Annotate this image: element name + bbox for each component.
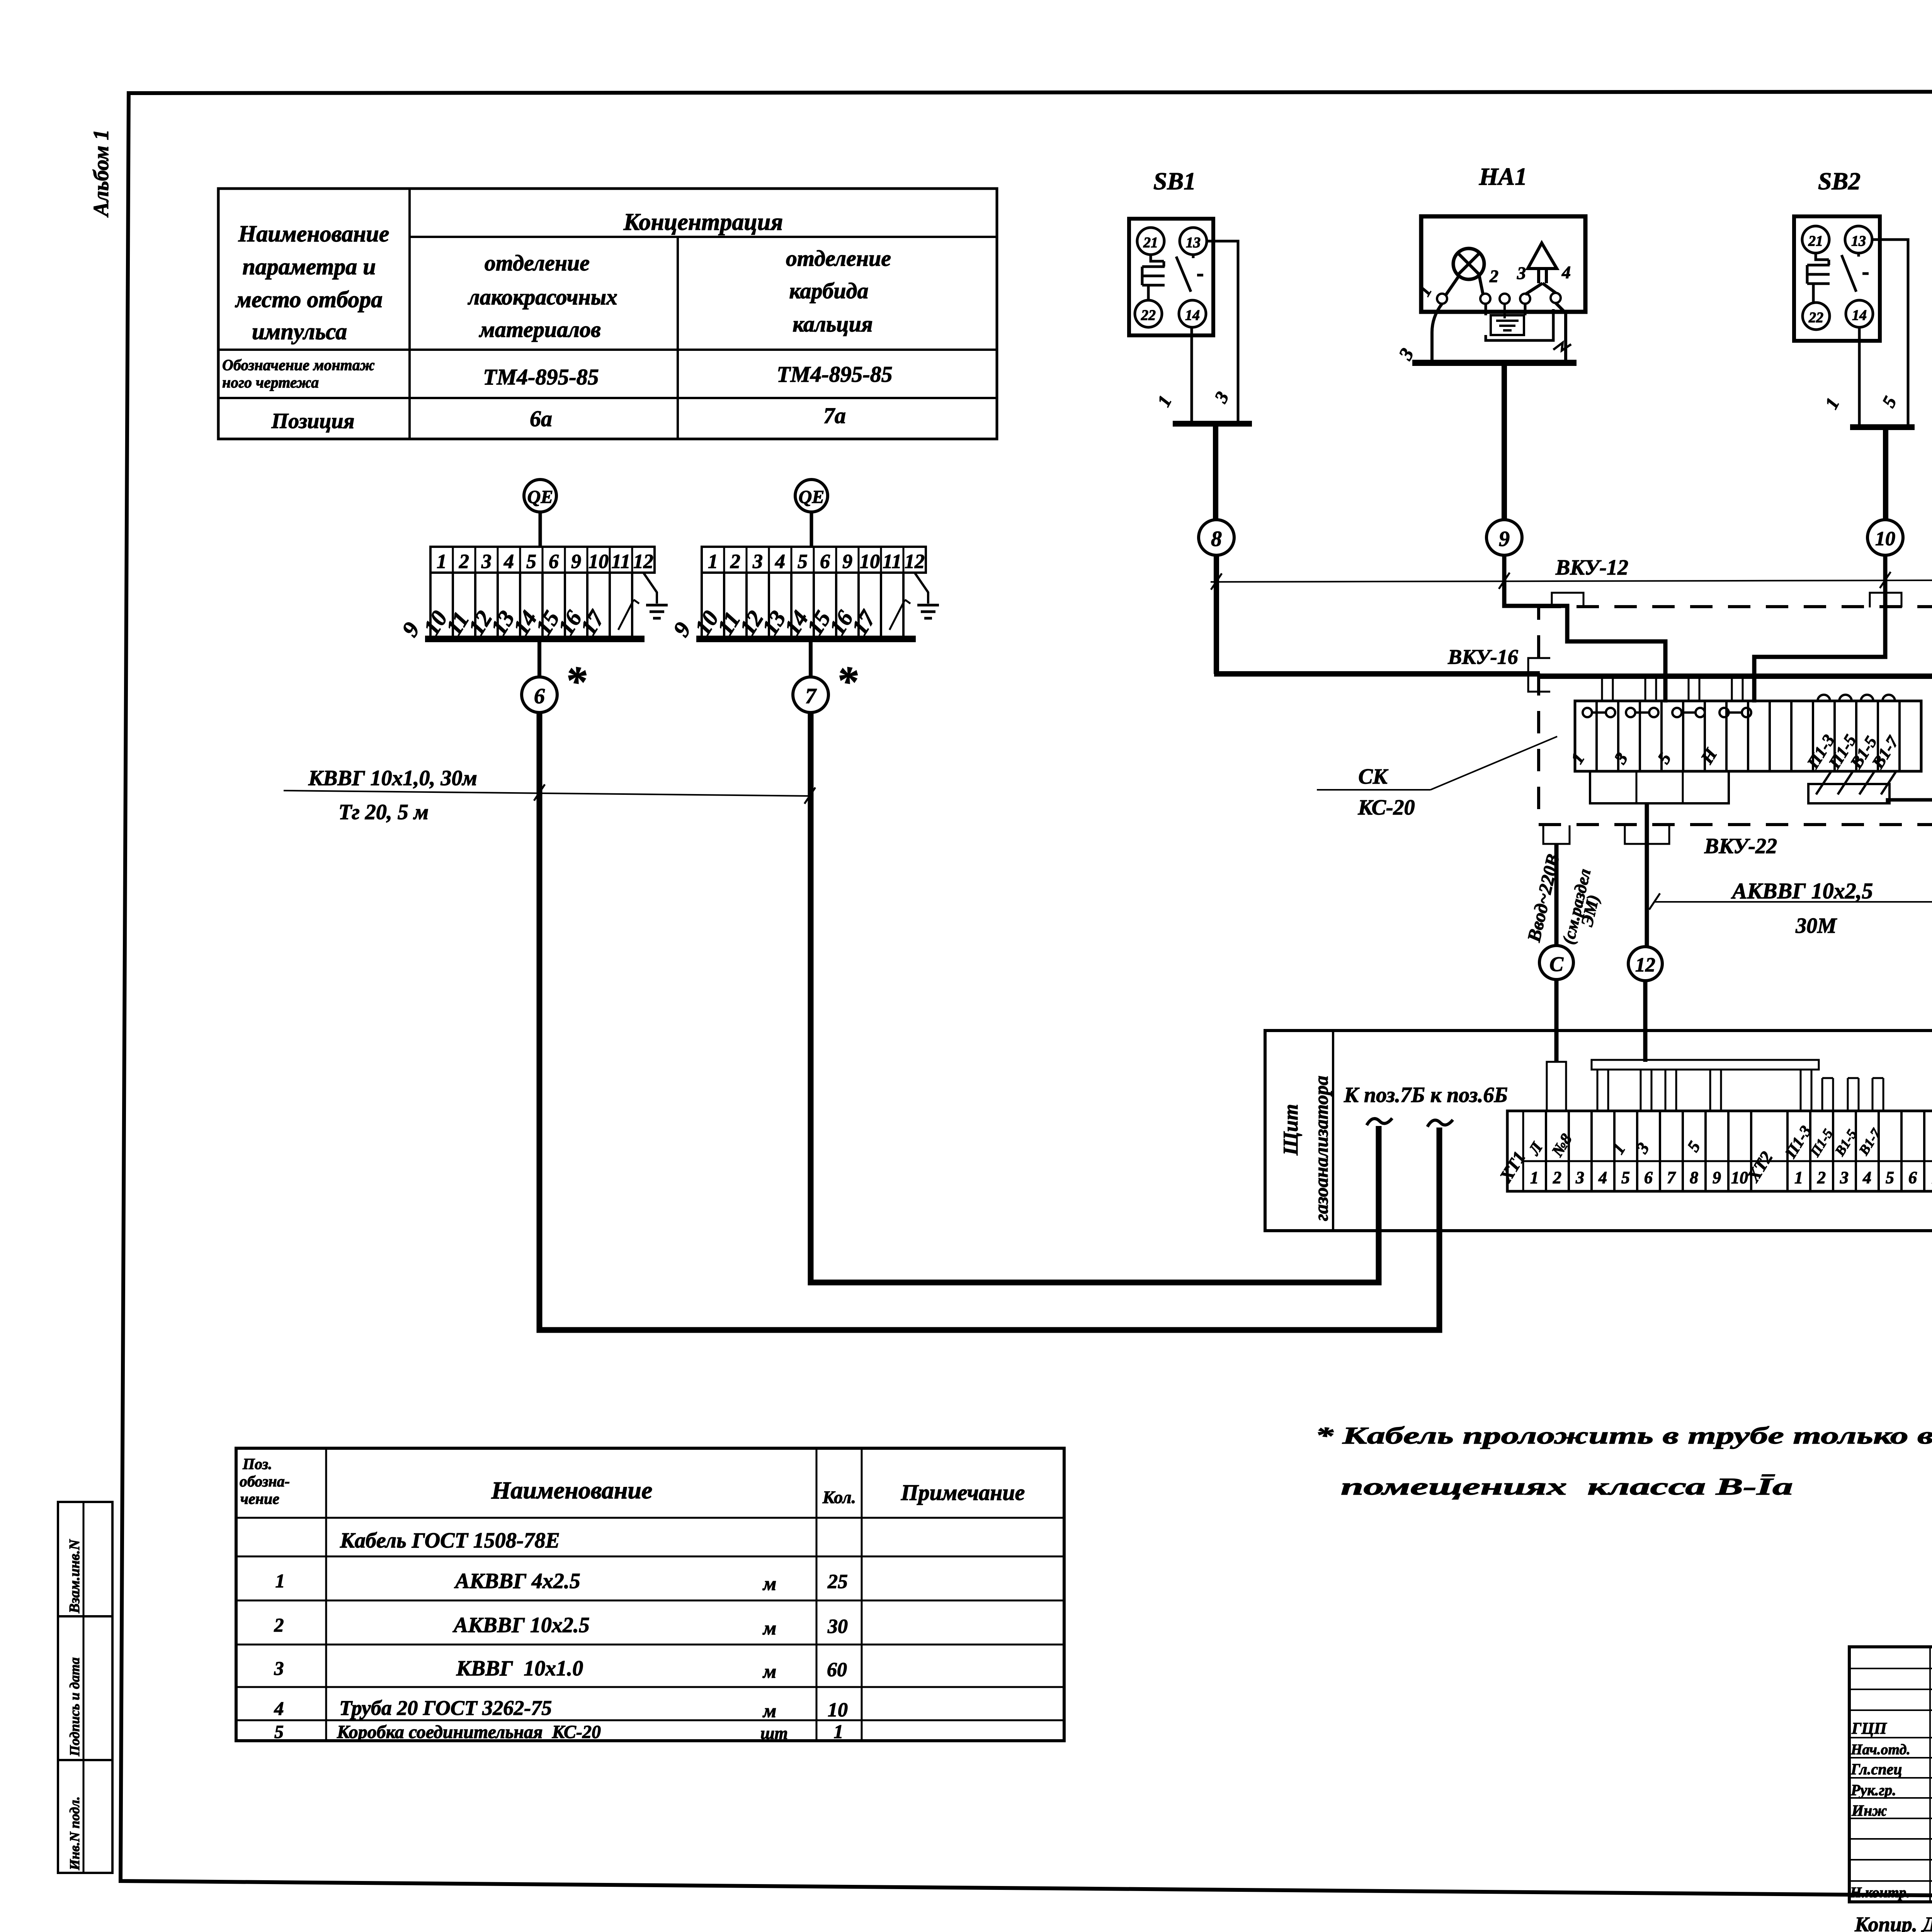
wire bar to node 7: [809, 642, 813, 677]
wire СК to node 12: [1645, 803, 1649, 946]
wire bar to node 8: [1213, 427, 1218, 520]
svg-text:К поз.7Б к поз.6Б: К поз.7Б к поз.6Б: [1344, 1083, 1508, 1107]
svg-text:кальция: кальция: [793, 311, 873, 337]
svg-text:1: 1: [708, 551, 718, 573]
svg-text:12: 12: [1635, 954, 1655, 976]
svg-text:Гл.спец: Гл.спец: [1850, 1760, 1902, 1778]
svg-text:Обозначение монтаж: Обозначение монтаж: [222, 356, 375, 374]
wire from node 6 to gas panel (КВВГ cable): [539, 713, 1439, 1330]
cable label АКВВГ 10х2,5 30М: [1649, 878, 1932, 938]
svg-text:9: 9: [1713, 1168, 1721, 1187]
svg-text:С: С: [1549, 952, 1564, 976]
svg-text:21: 21: [1808, 233, 1823, 249]
svg-text:место отбора: место отбора: [235, 287, 383, 312]
svg-text:Инж: Инж: [1851, 1802, 1887, 1819]
svg-text:м: м: [762, 1617, 776, 1639]
wire SB2.13 down: [1872, 240, 1908, 424]
wire SB2.14 down: [1858, 327, 1861, 424]
svg-text:1: 1: [437, 551, 447, 573]
hook arrow at К поз.7Б: [1367, 1118, 1392, 1125]
node 7: [793, 658, 858, 713]
svg-text:чение: чение: [240, 1490, 279, 1507]
svg-text:2: 2: [1489, 266, 1498, 286]
svg-text:13: 13: [1186, 235, 1201, 251]
wire bar to node 9: [1502, 366, 1507, 520]
gas analyzer panel Щит газоанализатора: [1265, 1031, 1932, 1231]
svg-text:6: 6: [1908, 1168, 1917, 1187]
svg-text:6: 6: [1644, 1168, 1653, 1187]
svg-text:помещениях класса В-Īа: помещениях класса В-Īа: [1341, 1474, 1793, 1500]
svg-text:2: 2: [459, 551, 469, 573]
svg-text:4: 4: [1561, 262, 1571, 282]
svg-text:4: 4: [775, 551, 785, 573]
wire node 10 into junction box: [1754, 556, 1885, 702]
cable gland top left: [1552, 593, 1583, 607]
pushbutton SB2: [1794, 167, 1880, 341]
svg-text:10: 10: [1875, 528, 1895, 550]
svg-text:14: 14: [1852, 307, 1867, 323]
wire QE1 to terminal block: [539, 512, 542, 547]
wire bus through junction box: [1539, 673, 1932, 679]
svg-text:9: 9: [571, 551, 581, 573]
svg-text:Поз.: Поз.: [242, 1455, 272, 1473]
svg-text:7: 7: [805, 684, 817, 708]
svg-text:Концентрация: Концентрация: [623, 209, 783, 235]
svg-text:м: м: [762, 1660, 776, 1682]
svg-text:Кол.: Кол.: [822, 1487, 856, 1507]
note text: [1315, 1423, 1932, 1500]
wire node 8 to junction box ВКУ-16: [1214, 556, 1540, 674]
gas sensor QE1: [524, 480, 556, 512]
risers above strip: [1602, 677, 1743, 701]
wire squiggle N: [1553, 343, 1571, 350]
svg-text:8: 8: [1211, 527, 1222, 551]
wire node 12 into gas panel: [1643, 981, 1648, 1062]
concentration table: [218, 189, 997, 439]
pushbutton SB1: [1129, 167, 1213, 335]
wire node 9 into junction box: [1504, 556, 1665, 702]
wire SB1.13 down: [1207, 241, 1238, 421]
svg-text:* Кабель проложить в трубе тол: * Кабель проложить в трубе только в: [1315, 1423, 1932, 1449]
svg-text:4: 4: [503, 551, 514, 573]
svg-text:9: 9: [1499, 527, 1510, 551]
svg-text:SB2: SB2: [1818, 167, 1861, 195]
svg-text:11: 11: [883, 551, 901, 573]
svg-text:ГЦП: ГЦП: [1851, 1720, 1887, 1738]
svg-text:обозна-: обозна-: [240, 1473, 290, 1490]
lower connector row of СК strip: [1590, 771, 1729, 803]
svg-text:SB1: SB1: [1153, 167, 1196, 195]
svg-text:Коробка соединительная КС-20: Коробка соединительная КС-20: [337, 1722, 601, 1742]
svg-text:4: 4: [274, 1697, 284, 1719]
svg-text:6: 6: [820, 551, 830, 573]
svg-text:Рук.гр.: Рук.гр.: [1850, 1781, 1896, 1799]
svg-text:КС-20: КС-20: [1357, 796, 1415, 820]
hatch wires П/В to bus: [1808, 772, 1932, 803]
svg-text:3: 3: [752, 551, 763, 573]
hook arrow at к поз.6Б: [1427, 1120, 1453, 1127]
ground of QE1 block: [643, 573, 668, 618]
cable gland ВКУ-22 bottom С: [1543, 825, 1570, 844]
terminal block XT of QE2: [668, 547, 926, 642]
svg-text:КВВГ 10х1,0, 30м: КВВГ 10х1,0, 30м: [308, 766, 477, 790]
svg-text:HA1: HA1: [1479, 163, 1527, 190]
svg-text:21: 21: [1143, 235, 1158, 251]
svg-text:Н.контр.: Н.контр.: [1850, 1884, 1910, 1901]
wire bar to node 10: [1883, 430, 1888, 520]
svg-text:Примечание: Примечание: [901, 1480, 1025, 1505]
svg-text:4: 4: [1598, 1168, 1607, 1187]
svg-text:7а: 7а: [823, 403, 846, 428]
svg-text:ного чертежа: ного чертежа: [222, 374, 319, 391]
svg-text:Наименование: Наименование: [491, 1476, 653, 1504]
svg-text:5: 5: [1886, 1168, 1894, 1187]
svg-text:*: *: [836, 658, 858, 705]
album label: [89, 129, 113, 218]
svg-text:5: 5: [1621, 1168, 1630, 1187]
horn annunciator HA1: [1414, 163, 1585, 312]
svg-text:АКВВГ 10х2,5: АКВВГ 10х2,5: [1731, 878, 1873, 903]
svg-text:22: 22: [1141, 307, 1156, 323]
svg-text:2: 2: [730, 551, 740, 573]
svg-text:25: 25: [827, 1571, 848, 1593]
svg-text:шт: шт: [760, 1724, 788, 1743]
svg-text:10: 10: [588, 551, 609, 573]
svg-text:Наименование: Наименование: [238, 221, 389, 247]
riser node С to strip: [1547, 1062, 1566, 1111]
wire SB1.14 down: [1190, 327, 1193, 421]
svg-text:10: 10: [860, 551, 880, 573]
svg-text:Инв.N подл.: Инв.N подл.: [67, 1796, 82, 1871]
svg-text:АКВВГ 4х2.5: АКВВГ 4х2.5: [454, 1569, 580, 1593]
junction bar under SB1: [1173, 421, 1252, 427]
svg-text:ВКУ-12: ВКУ-12: [1555, 556, 1628, 580]
svg-text:отделение: отделение: [786, 246, 891, 271]
svg-text:QE: QE: [527, 487, 553, 507]
svg-text:10: 10: [828, 1699, 848, 1721]
node 10: [1867, 520, 1903, 555]
svg-text:3: 3: [1517, 263, 1526, 283]
svg-text:ТМ4-895-85: ТМ4-895-85: [483, 364, 599, 389]
svg-text:ВКУ-22: ВКУ-22: [1704, 834, 1777, 858]
junction bar under SB2: [1850, 424, 1915, 430]
svg-text:*: *: [565, 658, 587, 705]
node С: [1539, 946, 1573, 980]
svg-text:параметра и: параметра и: [242, 254, 376, 279]
wire Ввод 220В to node С: [1554, 844, 1559, 945]
svg-text:5: 5: [798, 551, 808, 573]
svg-text:ВКУ-16: ВКУ-16: [1447, 645, 1518, 668]
svg-text:1: 1: [834, 1721, 844, 1742]
svg-text:Нач.отд.: Нач.отд.: [1850, 1742, 1910, 1758]
label СК КС-20: [1317, 736, 1557, 820]
cable gland top right: [1870, 593, 1901, 607]
svg-text:12: 12: [905, 551, 925, 573]
svg-text:7: 7: [1667, 1168, 1676, 1187]
svg-text:Подпись и дата: Подпись и дата: [67, 1657, 82, 1757]
wire from node 7 to gas panel (КВВГ cable): [811, 713, 1379, 1282]
terminal strip inside СК: [1567, 695, 1921, 772]
svg-text:карбида: карбида: [789, 278, 869, 303]
svg-text:6а: 6а: [530, 406, 552, 431]
svg-text:60: 60: [827, 1659, 847, 1681]
svg-text:14: 14: [1185, 307, 1200, 323]
node 6: [522, 658, 587, 713]
svg-text:2: 2: [274, 1614, 284, 1636]
wire HA1.1 (3) down: [1432, 304, 1442, 360]
svg-text:КВВГ 10х1.0: КВВГ 10х1.0: [456, 1656, 583, 1680]
svg-text:30М: 30М: [1795, 914, 1837, 938]
bus bar inside panel: [1592, 1060, 1819, 1111]
wire QE2 to terminal block: [810, 512, 813, 547]
svg-text:Альбом 1: Альбом 1: [89, 129, 113, 218]
svg-text:лакокрасочных: лакокрасочных: [468, 284, 617, 310]
gas sensor QE2: [795, 480, 828, 512]
svg-text:Позиция: Позиция: [271, 409, 355, 433]
title block: [1849, 1647, 1932, 1902]
svg-text:газоанализатора: газоанализатора: [1310, 1076, 1332, 1221]
svg-text:3: 3: [274, 1657, 284, 1679]
wire bar to node 6: [537, 642, 541, 677]
wire node С into gas panel: [1554, 980, 1559, 1062]
svg-text:Копир. Дёмкина: Копир. Дёмкина: [1854, 1913, 1932, 1932]
thin cable run ВКУ-12: [1211, 553, 1932, 615]
svg-text:2: 2: [1553, 1168, 1561, 1187]
svg-text:22: 22: [1808, 310, 1823, 326]
svg-text:1: 1: [1530, 1168, 1539, 1187]
junction bar under HA1: [1412, 360, 1577, 366]
svg-text:м: м: [762, 1700, 776, 1721]
node 9: [1486, 520, 1522, 555]
cable label КВВГ 10х1,0 30м: [284, 766, 815, 824]
svg-text:Щит: Щит: [1279, 1104, 1302, 1156]
svg-text:импульса: импульса: [252, 319, 347, 344]
svg-text:QE: QE: [799, 487, 825, 507]
svg-text:30: 30: [827, 1616, 848, 1638]
left margin stamp: [58, 1502, 112, 1873]
svg-text:Тг 20, 5 м: Тг 20, 5 м: [338, 800, 429, 824]
junction box СК КС-20 dashed outline: [1539, 607, 1932, 825]
svg-text:СК: СК: [1358, 765, 1388, 789]
ground of QE2 block: [915, 573, 939, 618]
svg-text:3: 3: [1840, 1168, 1849, 1187]
svg-text:11: 11: [611, 551, 630, 573]
label Ввод ~220В: [1524, 852, 1603, 946]
terminal strip ХТ1 ХТ2: [1495, 1111, 1932, 1191]
node 8: [1199, 520, 1234, 555]
cable gland ВКУ-22 bottom: [1625, 825, 1669, 844]
svg-text:АКВВГ 10х2.5: АКВВГ 10х2.5: [452, 1613, 590, 1637]
svg-text:1: 1: [1794, 1168, 1803, 1187]
svg-text:Взам.инв.N: Взам.инв.N: [66, 1539, 83, 1614]
svg-text:6: 6: [534, 684, 545, 708]
svg-text:5: 5: [526, 551, 536, 573]
parts list table: [236, 1448, 1064, 1743]
svg-text:Труба 20 ГОСТ 3262-75: Труба 20 ГОСТ 3262-75: [339, 1696, 552, 1719]
svg-text:1: 1: [276, 1570, 285, 1592]
svg-text:3: 3: [481, 551, 492, 573]
svg-text:материалов: материалов: [479, 317, 601, 342]
ground box of HA1: [1486, 304, 1553, 340]
cable gland ВКУ-16 left: [1528, 658, 1550, 692]
terminal block XT of QE1: [397, 547, 655, 642]
svg-text:5: 5: [274, 1722, 284, 1742]
svg-text:ТМ4-895-85: ТМ4-895-85: [777, 362, 893, 387]
svg-text:отделение: отделение: [485, 250, 590, 276]
node 12: [1628, 947, 1662, 981]
wire HA1.4 (N) down: [1556, 303, 1566, 360]
svg-text:8: 8: [1690, 1168, 1698, 1187]
svg-text:9: 9: [842, 551, 852, 573]
svg-text:2: 2: [1817, 1168, 1826, 1187]
svg-text:6: 6: [549, 551, 559, 573]
svg-text:13: 13: [1851, 233, 1866, 249]
svg-text:12: 12: [633, 551, 653, 573]
svg-text:4: 4: [1862, 1168, 1871, 1187]
risers П В right: [1822, 1078, 1883, 1111]
svg-text:Кабель ГОСТ 1508-78Е: Кабель ГОСТ 1508-78Е: [340, 1529, 560, 1553]
svg-text:м: м: [762, 1573, 776, 1594]
svg-text:3: 3: [1575, 1168, 1584, 1187]
